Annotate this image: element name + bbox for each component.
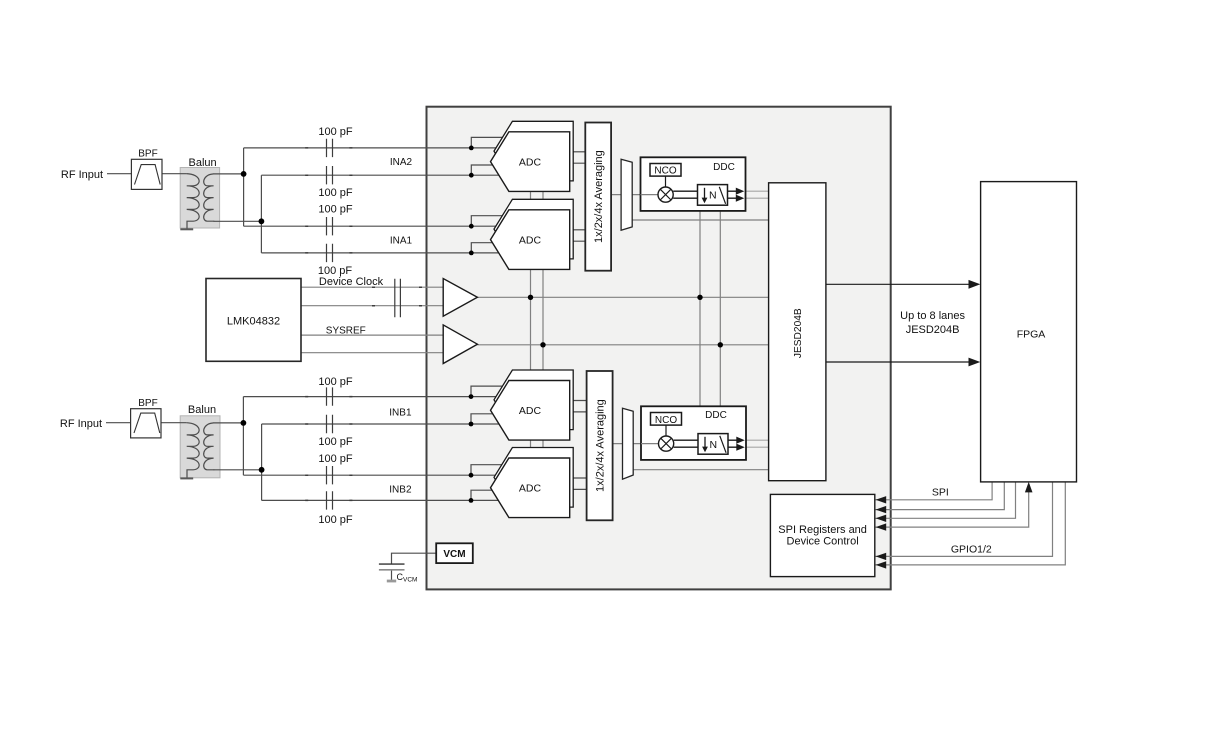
svg-text:INA1: INA1	[390, 236, 413, 247]
svg-text:INB1: INB1	[389, 407, 412, 418]
svg-text:100 pF: 100 pF	[318, 126, 353, 138]
svg-text:NCO: NCO	[654, 165, 676, 176]
svg-text:1x/2x/4x Averaging: 1x/2x/4x Averaging	[593, 150, 605, 243]
svg-text:N: N	[709, 189, 717, 201]
svg-text:VCM: VCM	[443, 549, 465, 560]
svg-text:100 pF: 100 pF	[318, 436, 353, 448]
svg-text:Device Clock: Device Clock	[319, 276, 384, 288]
svg-text:INA2: INA2	[390, 157, 413, 168]
svg-text:RF Input: RF Input	[60, 418, 102, 430]
svg-text:BPF: BPF	[138, 149, 157, 160]
svg-text:100 pF: 100 pF	[318, 514, 353, 526]
svg-text:SPI Registers and: SPI Registers and	[778, 524, 867, 536]
svg-text:SPI: SPI	[932, 487, 949, 499]
svg-text:100 pF: 100 pF	[318, 265, 353, 277]
svg-text:ADC: ADC	[519, 156, 542, 168]
svg-text:100 pF: 100 pF	[318, 187, 353, 199]
svg-text:CVCM: CVCM	[397, 572, 418, 584]
svg-text:DDC: DDC	[713, 162, 735, 173]
svg-text:INB2: INB2	[389, 485, 412, 496]
svg-text:1x/2x/4x Averaging: 1x/2x/4x Averaging	[595, 399, 607, 492]
svg-text:Balun: Balun	[189, 157, 217, 169]
svg-text:Up to 8 lanes: Up to 8 lanes	[900, 310, 965, 322]
svg-text:NCO: NCO	[655, 415, 677, 426]
svg-text:ADC: ADC	[519, 234, 542, 246]
svg-text:100 pF: 100 pF	[318, 203, 353, 215]
svg-text:LMK04832: LMK04832	[227, 316, 280, 328]
svg-text:N: N	[710, 439, 718, 451]
svg-text:100 pF: 100 pF	[318, 453, 353, 465]
svg-text:Balun: Balun	[188, 404, 216, 416]
svg-text:100 pF: 100 pF	[318, 376, 353, 388]
svg-text:GPIO1/2: GPIO1/2	[951, 543, 992, 555]
svg-text:FPGA: FPGA	[1017, 329, 1046, 341]
svg-text:ADC: ADC	[519, 405, 542, 417]
svg-text:SYSREF: SYSREF	[326, 326, 366, 337]
svg-text:DDC: DDC	[705, 410, 727, 421]
svg-text:JESD204B: JESD204B	[906, 324, 960, 336]
svg-text:JESD204B: JESD204B	[793, 308, 804, 358]
svg-text:ADC: ADC	[519, 483, 542, 495]
svg-text:Device Control: Device Control	[787, 536, 859, 548]
svg-text:BPF: BPF	[138, 398, 157, 409]
svg-text:RF Input: RF Input	[61, 169, 103, 181]
